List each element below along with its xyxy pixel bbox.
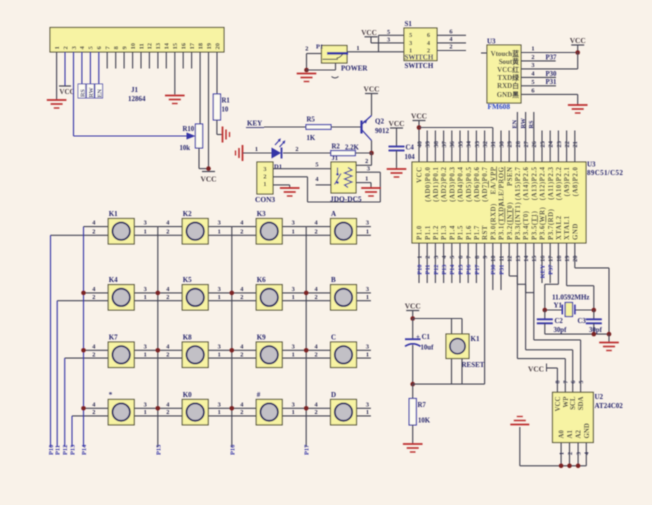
wire P1 bottom to ground node bbox=[307, 63, 336, 70]
svg-text:1: 1 bbox=[365, 176, 368, 183]
svg-text:3: 3 bbox=[292, 286, 295, 293]
net label RW (J1 pin5) bbox=[87, 52, 95, 98]
svg-text:2: 2 bbox=[568, 452, 574, 455]
svg-text:1: 1 bbox=[144, 229, 147, 236]
wire U2 pin6 number bbox=[571, 381, 577, 384]
svg-text:27: 27 bbox=[523, 140, 530, 147]
svg-text:28: 28 bbox=[515, 141, 522, 147]
wire J1 pin2 bbox=[64, 52, 66, 86]
svg-text:RST: RST bbox=[482, 225, 489, 240]
ground (R7) bbox=[403, 444, 423, 452]
svg-text:3: 3 bbox=[144, 286, 147, 293]
keypad row wires (nets P10-P13) bbox=[51, 235, 371, 447]
wire CON3 pin1 to ground bbox=[273, 185, 290, 188]
svg-text:24: 24 bbox=[548, 140, 555, 147]
svg-text:U2: U2 bbox=[595, 393, 604, 401]
wire VCC to EA/VPP pin31 bbox=[419, 128, 493, 163]
svg-text:12: 12 bbox=[507, 255, 514, 261]
wire LED anode bbox=[243, 146, 272, 153]
svg-text:2: 2 bbox=[315, 229, 318, 236]
wire Q2 collector bbox=[371, 141, 373, 154]
net label RS (J1 pin4) bbox=[78, 52, 86, 98]
svg-text:10: 10 bbox=[222, 107, 229, 114]
resistor R7 10K bbox=[409, 384, 431, 425]
svg-text:14: 14 bbox=[523, 255, 530, 262]
keypad column wires (nets P14-P17) bbox=[81, 227, 311, 455]
svg-text:K0: K0 bbox=[183, 391, 192, 399]
svg-text:1: 1 bbox=[255, 146, 258, 153]
svg-text:SWITCH: SWITCH bbox=[405, 54, 434, 62]
pushbutton K1 RESET bbox=[446, 334, 485, 369]
svg-text:10K: 10K bbox=[418, 418, 431, 425]
connector J1 12864 bbox=[50, 28, 224, 104]
svg-text:3: 3 bbox=[292, 401, 295, 408]
svg-text:(AD5)P0.5: (AD5)P0.5 bbox=[466, 166, 473, 201]
ground (P1) bbox=[297, 74, 317, 82]
svg-text:P15: P15 bbox=[457, 265, 464, 275]
svg-text:26: 26 bbox=[531, 140, 538, 147]
wire GND (pin20) bbox=[575, 243, 609, 334]
ground (crystal) bbox=[599, 343, 619, 351]
wire C4 to ground bbox=[396, 151, 398, 169]
svg-text:P1: P1 bbox=[316, 43, 323, 50]
svg-text:C2: C2 bbox=[555, 318, 564, 325]
mcu stub net P30 bbox=[490, 243, 497, 290]
svg-text:(AD0)P0.0: (AD0)P0.0 bbox=[425, 166, 432, 201]
svg-text:POWER: POWER bbox=[341, 64, 368, 72]
mcu stub net P31 bbox=[498, 243, 505, 290]
svg-text:(A9)P2.1: (A9)P2.1 bbox=[564, 166, 571, 196]
svg-text:33: 33 bbox=[474, 141, 481, 147]
svg-text:P37: P37 bbox=[548, 264, 555, 275]
svg-text:(A11)P2.3: (A11)P2.3 bbox=[548, 166, 555, 199]
svg-text:VCC: VCC bbox=[363, 85, 379, 94]
wire U2 ground rail bbox=[520, 427, 587, 466]
svg-text:2: 2 bbox=[92, 409, 95, 416]
svg-text:GND黑: GND黑 bbox=[497, 90, 519, 99]
pushbutton K0 bbox=[166, 391, 221, 425]
ground (J1 pin15) bbox=[165, 96, 185, 104]
svg-text:1: 1 bbox=[218, 409, 221, 416]
svg-text:P12: P12 bbox=[433, 265, 440, 275]
svg-text:3: 3 bbox=[531, 62, 534, 69]
svg-text:P16: P16 bbox=[466, 264, 473, 275]
svg-text:KEY: KEY bbox=[247, 120, 262, 128]
power VCC (U2) bbox=[528, 364, 557, 374]
svg-text:R10: R10 bbox=[183, 126, 195, 133]
svg-text:8: 8 bbox=[556, 381, 562, 384]
wire relay pin2 to collector node bbox=[356, 153, 372, 165]
ground (relay) bbox=[361, 188, 381, 196]
svg-text:3: 3 bbox=[218, 220, 221, 227]
svg-text:VCC红: VCC红 bbox=[497, 65, 519, 74]
svg-text:TXD绿: TXD绿 bbox=[498, 73, 520, 82]
svg-text:10: 10 bbox=[130, 42, 137, 49]
svg-text:3: 3 bbox=[292, 220, 295, 227]
svg-text:1: 1 bbox=[54, 46, 61, 49]
svg-text:P13: P13 bbox=[441, 265, 448, 275]
svg-text:XTAL1: XTAL1 bbox=[564, 215, 571, 240]
svg-text:P15: P15 bbox=[155, 445, 162, 455]
svg-text:A1: A1 bbox=[567, 430, 574, 439]
ground (LED, horizontal) bbox=[236, 145, 243, 161]
junction node (reset top) bbox=[410, 316, 415, 321]
svg-text:2: 2 bbox=[166, 351, 169, 358]
pushbutton K8 bbox=[166, 334, 221, 368]
svg-text:21: 21 bbox=[572, 141, 579, 147]
svg-text:22: 22 bbox=[564, 141, 571, 147]
svg-text:JDQ-DC5: JDQ-DC5 bbox=[330, 195, 362, 204]
svg-text:Vtouch蓝: Vtouch蓝 bbox=[491, 49, 519, 58]
svg-text:P3.0(RXD): P3.0(RXD) bbox=[490, 203, 497, 240]
pushbutton K6 bbox=[240, 276, 295, 310]
svg-text:34: 34 bbox=[466, 140, 473, 147]
svg-text:K2: K2 bbox=[183, 210, 192, 218]
pushbutton K1 bbox=[92, 210, 147, 244]
junction node (rail C3) bbox=[592, 332, 597, 337]
svg-text:14: 14 bbox=[164, 42, 171, 49]
mcu bottom stubs P10-P17 bbox=[416, 243, 480, 283]
svg-text:VCC: VCC bbox=[555, 396, 562, 411]
wire R7 to ground bbox=[412, 425, 414, 444]
wire Q2 emitter to VCC bbox=[371, 94, 373, 116]
junction node (Q2 collector) bbox=[369, 151, 374, 156]
svg-text:1: 1 bbox=[218, 229, 221, 236]
wire J1 pin1 bbox=[56, 52, 58, 100]
svg-text:C3: C3 bbox=[578, 318, 587, 325]
svg-text:P3.4(T0): P3.4(T0) bbox=[523, 211, 530, 240]
ground (U3) bbox=[568, 105, 588, 113]
wire CON3 pin2 to relay pin3 bbox=[273, 166, 380, 202]
svg-text:3: 3 bbox=[218, 343, 221, 350]
svg-text:1: 1 bbox=[218, 294, 221, 301]
svg-text:VCC: VCC bbox=[361, 29, 377, 37]
mcu pin15 stub bbox=[533, 243, 535, 293]
svg-text:VCC: VCC bbox=[405, 302, 421, 311]
svg-text:(A10)P2.2: (A10)P2.2 bbox=[556, 166, 563, 200]
svg-text:K5: K5 bbox=[183, 276, 192, 284]
svg-text:AT24C02: AT24C02 bbox=[595, 402, 624, 410]
ground (U2, inverted) bbox=[510, 417, 529, 425]
svg-text:89C51/C52: 89C51/C52 bbox=[587, 169, 623, 177]
svg-text:3: 3 bbox=[218, 286, 221, 293]
svg-text:(AD3)P0.3: (AD3)P0.3 bbox=[449, 166, 456, 201]
power VCC (C4) bbox=[388, 119, 404, 128]
eeprom U2 AT24C02 bbox=[553, 392, 624, 442]
svg-text:2: 2 bbox=[425, 256, 432, 259]
svg-text:PSEN: PSEN bbox=[507, 167, 514, 187]
svg-text:U3: U3 bbox=[587, 161, 596, 169]
pushbutton B bbox=[315, 276, 370, 310]
svg-text:16: 16 bbox=[181, 42, 188, 49]
svg-text:2: 2 bbox=[240, 351, 243, 358]
svg-text:10: 10 bbox=[490, 256, 497, 262]
svg-text:1: 1 bbox=[366, 351, 369, 358]
svg-text:D1: D1 bbox=[274, 164, 282, 171]
svg-text:1: 1 bbox=[366, 409, 369, 416]
svg-text:P1.0: P1.0 bbox=[417, 225, 424, 240]
svg-text:6: 6 bbox=[449, 29, 452, 36]
svg-text:RXD白: RXD白 bbox=[497, 81, 519, 90]
svg-text:S1: S1 bbox=[405, 20, 413, 28]
svg-text:R5: R5 bbox=[307, 117, 316, 124]
transistor Q2 9012 bbox=[362, 116, 390, 141]
wire S1 pin4 bbox=[437, 36, 466, 43]
svg-text:3: 3 bbox=[367, 166, 370, 173]
pushbutton # bbox=[240, 391, 295, 425]
net label RW (mcu pin27) bbox=[520, 112, 527, 162]
svg-text:30pf: 30pf bbox=[554, 327, 568, 334]
svg-text:104: 104 bbox=[405, 154, 416, 161]
svg-text:(AD4)P0.4: (AD4)P0.4 bbox=[458, 166, 465, 201]
wire K1 bottom pins bbox=[452, 359, 463, 385]
svg-text:2: 2 bbox=[92, 294, 95, 301]
svg-text:37: 37 bbox=[441, 140, 448, 147]
svg-text:P30: P30 bbox=[490, 265, 497, 275]
svg-text:31: 31 bbox=[490, 141, 497, 147]
wire U2 pin7 number bbox=[564, 381, 570, 384]
resistor R5 1K bbox=[306, 117, 331, 143]
svg-text:1: 1 bbox=[292, 409, 295, 416]
svg-text:11.0592MHz: 11.0592MHz bbox=[552, 294, 590, 302]
svg-text:P10: P10 bbox=[416, 265, 423, 275]
svg-text:19: 19 bbox=[564, 256, 571, 262]
wire J1 pin19 to VCC node bbox=[208, 52, 210, 169]
net label KEY bbox=[246, 120, 264, 128]
svg-text:1: 1 bbox=[559, 452, 565, 455]
wire K1 top pins bbox=[452, 319, 463, 335]
svg-text:R1: R1 bbox=[222, 98, 231, 105]
wire CON3 pin3 to relay pin5 bbox=[273, 162, 331, 169]
pushbutton K7 bbox=[92, 334, 147, 368]
pushbutton C bbox=[315, 334, 370, 368]
wire U2 pin8 bbox=[556, 368, 562, 392]
crystal Y1 11.0592MHz bbox=[545, 294, 594, 317]
svg-text:R2: R2 bbox=[332, 144, 341, 151]
svg-text:P13: P13 bbox=[70, 445, 77, 455]
svg-text:Sout黄: Sout黄 bbox=[499, 57, 519, 66]
svg-text:#: # bbox=[257, 391, 261, 399]
svg-text:32: 32 bbox=[482, 141, 489, 147]
svg-text:3: 3 bbox=[144, 343, 147, 350]
svg-text:30: 30 bbox=[498, 141, 505, 147]
svg-text:38: 38 bbox=[433, 141, 440, 147]
net label EN (mcu pin28) bbox=[512, 112, 519, 162]
wire VCC to C4 bbox=[396, 128, 398, 147]
svg-text:A: A bbox=[331, 210, 336, 218]
svg-text:Q2: Q2 bbox=[375, 118, 384, 126]
svg-text:17: 17 bbox=[548, 255, 555, 262]
svg-text:GND: GND bbox=[584, 423, 591, 438]
svg-text:P31: P31 bbox=[546, 79, 558, 86]
relay J1 JDQ-DC5 bbox=[330, 155, 362, 204]
wire S1 pin5 bbox=[379, 29, 405, 52]
svg-text:2: 2 bbox=[295, 146, 298, 153]
svg-text:19: 19 bbox=[206, 42, 213, 49]
mcu stub net KEY bbox=[539, 243, 546, 283]
net label EN (J1 pin6) bbox=[95, 52, 103, 98]
mcu stub net P37 bbox=[548, 243, 555, 283]
wire U2 pin5 number bbox=[579, 381, 585, 384]
power VCC (reset) bbox=[405, 302, 421, 319]
svg-text:2: 2 bbox=[92, 351, 95, 358]
svg-text:13: 13 bbox=[515, 256, 522, 262]
svg-text:2: 2 bbox=[305, 45, 308, 52]
svg-text:SDA: SDA bbox=[578, 396, 585, 410]
wire U2 bottom pins to rail bbox=[559, 443, 590, 466]
svg-text:3: 3 bbox=[292, 343, 295, 350]
wire R1 bottom bbox=[217, 120, 223, 135]
svg-text:(AD1)P0.1: (AD1)P0.1 bbox=[433, 166, 440, 201]
svg-text:P1.1: P1.1 bbox=[425, 225, 432, 240]
svg-text:3: 3 bbox=[366, 401, 369, 408]
junction node (reset bottom) bbox=[410, 382, 415, 387]
wire U3 pin2 net P37 bbox=[521, 54, 557, 61]
mcu U1 89C51/C52 bbox=[412, 140, 623, 262]
wire R2 to collector node bbox=[355, 152, 371, 154]
svg-text:J1: J1 bbox=[131, 86, 139, 94]
svg-text:P3.3(INT1): P3.3(INT1) bbox=[515, 202, 522, 240]
pushbutton K4 bbox=[92, 276, 147, 310]
svg-text:U3: U3 bbox=[487, 38, 496, 46]
svg-text:P30: P30 bbox=[546, 71, 558, 78]
svg-text:K7: K7 bbox=[109, 334, 118, 342]
svg-text:K3: K3 bbox=[257, 210, 266, 218]
svg-text:D: D bbox=[331, 391, 336, 399]
keypad net labels P10-P13 bbox=[48, 445, 77, 455]
svg-text:P17: P17 bbox=[304, 444, 311, 455]
svg-text:XTAL2: XTAL2 bbox=[556, 215, 563, 240]
svg-text:K1: K1 bbox=[109, 210, 118, 218]
svg-text:P1.6: P1.6 bbox=[466, 225, 473, 240]
svg-text:5: 5 bbox=[579, 381, 585, 384]
svg-text:P1.3: P1.3 bbox=[441, 225, 448, 240]
svg-text:C4: C4 bbox=[406, 145, 415, 152]
wire mcu pin13 to U2 pin6 bbox=[517, 243, 572, 392]
svg-text:13: 13 bbox=[155, 42, 162, 49]
wire P1 pin2 bbox=[305, 45, 321, 70]
power VCC (S1) bbox=[361, 29, 377, 43]
svg-text:VCC: VCC bbox=[411, 112, 427, 121]
wire rail to ground bbox=[608, 334, 610, 342]
svg-text:RESET: RESET bbox=[462, 361, 485, 369]
svg-text:KEY: KEY bbox=[539, 264, 546, 278]
svg-text:VCC: VCC bbox=[417, 167, 424, 183]
svg-text:SWITCH: SWITCH bbox=[405, 62, 434, 70]
svg-text:P11: P11 bbox=[425, 265, 432, 275]
junction node (mcu VCC) bbox=[417, 125, 422, 130]
svg-text:36: 36 bbox=[449, 140, 456, 147]
svg-text:1: 1 bbox=[531, 46, 534, 53]
wire J1 pin18 to R10 bbox=[199, 52, 201, 124]
svg-text:39: 39 bbox=[425, 141, 432, 147]
svg-text:18: 18 bbox=[197, 42, 204, 49]
wire J1 pin15 bbox=[174, 52, 176, 95]
capacitor C3 30pf bbox=[578, 310, 603, 334]
svg-text:3: 3 bbox=[144, 401, 147, 408]
svg-text:17: 17 bbox=[189, 42, 196, 49]
power VCC (mcu) bbox=[411, 112, 427, 163]
svg-text:2: 2 bbox=[449, 44, 452, 51]
wire U3 pin6 to ground bbox=[521, 88, 578, 105]
wire XTAL2 (pin18) to crystal bbox=[545, 243, 559, 310]
connector P1 POWER bbox=[316, 43, 368, 78]
svg-text:P11: P11 bbox=[55, 445, 62, 455]
wire R5 to Q2 base bbox=[331, 126, 362, 128]
svg-text:2: 2 bbox=[315, 294, 318, 301]
svg-text:1: 1 bbox=[144, 409, 147, 416]
svg-text:P14: P14 bbox=[449, 264, 456, 275]
junction node VCC (below R10) bbox=[206, 166, 211, 171]
wire relay pin4 stub bbox=[315, 176, 331, 185]
svg-text:P37: P37 bbox=[546, 54, 558, 61]
wire R10 bottom to VCC node bbox=[199, 148, 209, 169]
svg-text:K8: K8 bbox=[183, 334, 192, 342]
svg-text:VCC: VCC bbox=[528, 365, 544, 374]
pushbutton K5 bbox=[166, 276, 221, 310]
svg-text:4: 4 bbox=[585, 452, 591, 455]
svg-text:3: 3 bbox=[144, 220, 147, 227]
svg-text:5: 5 bbox=[531, 79, 534, 86]
junction node (rail GND) bbox=[607, 332, 612, 337]
svg-text:2.2K: 2.2K bbox=[345, 144, 359, 151]
svg-text:3: 3 bbox=[366, 220, 369, 227]
svg-text:P14: P14 bbox=[81, 444, 88, 455]
svg-text:(AD2)P0.2: (AD2)P0.2 bbox=[441, 166, 448, 201]
pushbutton K9 bbox=[240, 334, 295, 368]
svg-text:P3.6(WR): P3.6(WR) bbox=[540, 207, 547, 240]
svg-text:(A14)P2.6: (A14)P2.6 bbox=[523, 166, 530, 200]
svg-text:29: 29 bbox=[507, 141, 514, 147]
svg-text:P31: P31 bbox=[498, 265, 505, 275]
wire U3 pin1 to VCC bbox=[521, 46, 578, 53]
svg-text:B: B bbox=[331, 276, 336, 284]
svg-text:7: 7 bbox=[564, 381, 570, 384]
capacitor C1 10uf bbox=[405, 319, 434, 352]
svg-text:1: 1 bbox=[292, 294, 295, 301]
ground (C4) bbox=[387, 169, 407, 177]
svg-text:J1: J1 bbox=[332, 155, 339, 162]
wire C1 to bottom rail bbox=[412, 345, 414, 384]
wire LED cathode to R2 bbox=[283, 146, 331, 153]
svg-text:40: 40 bbox=[416, 141, 423, 147]
svg-text:2: 2 bbox=[92, 229, 95, 236]
svg-text:1: 1 bbox=[292, 229, 295, 236]
svg-text:SCL: SCL bbox=[570, 396, 577, 410]
junction nodes (U2 rail) bbox=[559, 464, 581, 469]
power VCC (Q2 emitter) bbox=[363, 85, 379, 94]
svg-text:VCC: VCC bbox=[388, 119, 404, 128]
ground (J1 pin1) bbox=[47, 100, 67, 108]
svg-text:2: 2 bbox=[240, 409, 243, 416]
wire J1 pin20 to R1 bbox=[216, 52, 218, 94]
svg-text:P1.4: P1.4 bbox=[449, 225, 456, 240]
power label VCC (J1 pin2) bbox=[59, 86, 75, 96]
svg-text:A2: A2 bbox=[576, 430, 583, 439]
svg-text:20: 20 bbox=[572, 256, 579, 262]
svg-text:P17: P17 bbox=[474, 264, 481, 275]
wire U3 pin5 net P31 bbox=[521, 79, 557, 86]
svg-text:P12: P12 bbox=[62, 445, 69, 455]
pushbutton K2 bbox=[166, 210, 221, 244]
svg-text:3: 3 bbox=[366, 343, 369, 350]
svg-text:2: 2 bbox=[240, 294, 243, 301]
pushbutton * bbox=[92, 391, 147, 425]
svg-text:25: 25 bbox=[539, 141, 546, 147]
keypad junction dots bbox=[81, 291, 308, 411]
switch S1 bbox=[404, 20, 437, 70]
wire U3 pin4 net P30 bbox=[521, 71, 557, 78]
